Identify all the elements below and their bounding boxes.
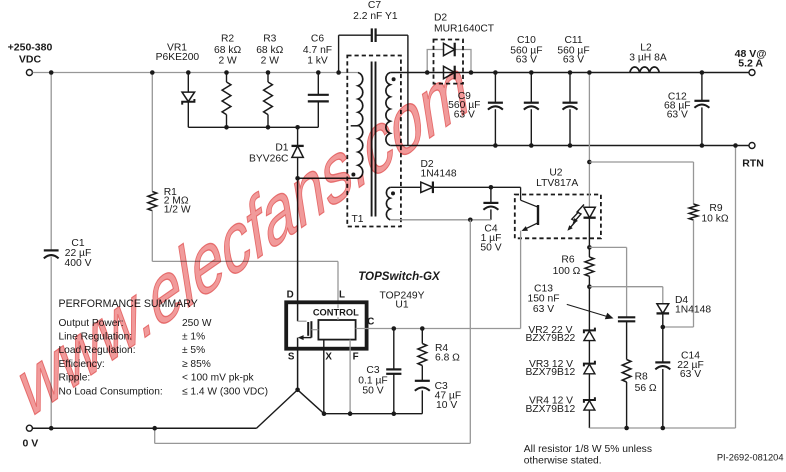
svg-text:10 V: 10 V	[436, 400, 457, 411]
svg-text:68 kΩ: 68 kΩ	[214, 45, 241, 56]
wire X F C3 sub-rail	[322, 411, 423, 416]
capacitor C3 47uF	[415, 381, 461, 414]
zener VR1 P6KE200	[156, 43, 200, 128]
resistor R3	[256, 34, 283, 130]
pin D	[287, 178, 298, 302]
capacitor C14	[655, 327, 703, 430]
capacitor C1	[44, 238, 92, 269]
wire bias return	[152, 218, 491, 444]
svg-text:56 Ω: 56 Ω	[635, 383, 657, 394]
resistor R2	[214, 34, 241, 130]
wire secondary ground rail	[390, 145, 749, 147]
resistor R6	[553, 255, 594, 290]
svg-text:LTV817A: LTV817A	[536, 178, 578, 189]
wire zener chain to RTN rail	[589, 143, 737, 428]
capacitor C6	[303, 34, 332, 128]
svg-text:63 V: 63 V	[667, 110, 688, 121]
transformer T1 primary winding	[351, 73, 363, 179]
rectifier D2 MUR1640CT	[425, 12, 495, 83]
svg-text:C: C	[367, 316, 374, 327]
svg-text:BZX79B12: BZX79B12	[525, 404, 575, 415]
resistor R9	[589, 162, 728, 327]
svg-text:2 W: 2 W	[261, 56, 280, 67]
svg-text:3 µH 8A: 3 µH 8A	[629, 53, 667, 64]
optocoupler U2 phototransistor	[521, 187, 538, 328]
svg-text:1 kV: 1 kV	[307, 56, 328, 67]
text performance summary	[59, 298, 268, 397]
transformer T1 box	[347, 56, 401, 227]
text PI number	[717, 453, 784, 463]
wire R1 to L pin	[152, 261, 338, 302]
capacitor C11 560uF	[557, 35, 589, 148]
svg-text:TOPSwitch-GX: TOPSwitch-GX	[358, 270, 441, 283]
capacitor C9 560uF	[448, 70, 503, 148]
svg-text:L: L	[339, 289, 345, 300]
capacitor C3 0.1uF	[358, 326, 401, 416]
node RTN output terminal	[742, 143, 764, 170]
svg-text:1N4148: 1N4148	[675, 304, 711, 315]
svg-text:BZX79B12: BZX79B12	[525, 367, 575, 378]
optocoupler U2 LTV817A box	[515, 167, 601, 238]
pin F	[350, 340, 359, 414]
svg-text:50 V: 50 V	[362, 385, 383, 396]
transformer T1 bias winding	[386, 187, 395, 220]
diode D4 1N4148	[589, 287, 711, 330]
capacitor C4	[480, 185, 501, 254]
node 48V output terminal	[735, 48, 767, 76]
ic U1 MOSFET	[298, 302, 319, 340]
optocoupler U2 LED	[584, 70, 596, 257]
svg-text:otherwise stated.: otherwise stated.	[524, 456, 602, 467]
svg-text:MUR1640CT: MUR1640CT	[434, 23, 495, 34]
svg-text:150 nF: 150 nF	[527, 294, 559, 305]
svg-text:P6KE200: P6KE200	[156, 52, 200, 63]
watermark www.elecfans.com	[15, 36, 474, 440]
svg-text:C6: C6	[311, 34, 324, 45]
resistor R1	[148, 70, 191, 261]
wire drain node	[295, 176, 358, 181]
svg-text:50 V: 50 V	[480, 243, 501, 254]
svg-text:± 5%: ± 5%	[182, 345, 205, 356]
svg-text:6.8 Ω: 6.8 Ω	[435, 353, 460, 364]
optocoupler U2 light arrows	[567, 205, 584, 231]
diode D2 1N4148 bias	[390, 159, 520, 193]
wire left bus vertical	[49, 70, 54, 430]
svg-text:≤ 1.4 W (300 VDC): ≤ 1.4 W (300 VDC)	[182, 386, 268, 397]
capacitor C10 560uF	[510, 35, 542, 148]
svg-text:< 100 mV pk-pk: < 100 mV pk-pk	[182, 373, 255, 384]
svg-text:2.2 nF Y1: 2.2 nF Y1	[353, 11, 398, 22]
ic U1 CONTROL block	[313, 305, 359, 340]
capacitor C12	[664, 70, 709, 148]
zener VR4 BZX79B12	[525, 374, 594, 415]
diode D1 BYV26C	[249, 125, 304, 178]
pin L	[339, 289, 345, 300]
svg-text:D2: D2	[434, 12, 447, 23]
zener VR3 BZX79B12	[525, 341, 594, 379]
svg-text:R3: R3	[263, 34, 276, 45]
svg-text:C7: C7	[368, 0, 381, 11]
svg-text:≥ 85%: ≥ 85%	[182, 359, 211, 370]
svg-text:R6: R6	[561, 255, 574, 266]
svg-text:100 Ω: 100 Ω	[553, 266, 581, 277]
svg-text:R9: R9	[709, 203, 722, 214]
ic U1 TOP249Y box	[286, 270, 441, 348]
svg-text:X: X	[325, 352, 332, 363]
svg-text:All resistor 1/8 W 5% unless: All resistor 1/8 W 5% unless	[524, 444, 652, 455]
svg-text:0 V: 0 V	[23, 438, 39, 450]
svg-text:U1: U1	[395, 299, 408, 310]
svg-text:D1: D1	[275, 143, 288, 154]
pin C	[356, 316, 375, 328]
wire clamp sub-rail	[188, 126, 318, 128]
svg-text:63 V: 63 V	[533, 304, 554, 315]
svg-text:± 1%: ± 1%	[182, 332, 205, 343]
transformer T1 secondary winding	[386, 73, 396, 146]
svg-text:T1: T1	[351, 214, 363, 225]
capacitor C13	[527, 247, 635, 359]
svg-text:63 V: 63 V	[516, 54, 537, 65]
transformer T1 core	[372, 62, 376, 217]
wire secondary top rail	[390, 72, 749, 74]
node 0V terminal	[23, 425, 39, 449]
capacitor C7 2.2nF Y1	[336, 0, 408, 145]
svg-text:2 W: 2 W	[218, 56, 237, 67]
node VIN input terminal +250-380 VDC	[8, 42, 53, 76]
node S junction	[257, 388, 325, 429]
svg-text:1N4148: 1N4148	[421, 169, 457, 180]
svg-text:F: F	[353, 352, 359, 363]
svg-text:10 kΩ: 10 kΩ	[701, 214, 728, 225]
svg-text:D: D	[287, 289, 294, 300]
svg-text:68 kΩ: 68 kΩ	[256, 45, 283, 56]
wire C pin to opto emitter	[367, 328, 521, 330]
inductor L2	[629, 42, 667, 72]
svg-text:PI-2692-081204: PI-2692-081204	[717, 453, 784, 463]
pin X	[324, 340, 333, 414]
svg-text:400 V: 400 V	[65, 258, 92, 269]
resistor R4	[418, 326, 460, 380]
svg-text:U2: U2	[549, 167, 562, 178]
svg-text:VDC: VDC	[19, 54, 42, 66]
svg-text:R8: R8	[635, 372, 648, 383]
zener VR2 BZX79B22	[525, 287, 594, 344]
svg-text:1/2 W: 1/2 W	[164, 204, 191, 215]
svg-text:5.2 A: 5.2 A	[738, 57, 763, 69]
svg-text:63 V: 63 V	[563, 54, 584, 65]
wire C13 label arrow	[567, 304, 614, 319]
wire top primary rail	[33, 72, 358, 74]
svg-text:R2: R2	[221, 34, 234, 45]
pin S	[288, 338, 298, 390]
svg-text:4.7 nF: 4.7 nF	[303, 45, 332, 56]
svg-text:BZX79B22: BZX79B22	[525, 333, 575, 344]
text footnote	[524, 444, 652, 467]
svg-text:S: S	[288, 352, 295, 363]
svg-text:+250-380: +250-380	[8, 42, 53, 54]
resistor R8	[622, 360, 657, 431]
wire 0V rail	[33, 427, 257, 429]
svg-text:CONTROL: CONTROL	[313, 308, 359, 318]
svg-text:63 V: 63 V	[680, 369, 701, 380]
svg-text:RTN: RTN	[742, 158, 764, 170]
